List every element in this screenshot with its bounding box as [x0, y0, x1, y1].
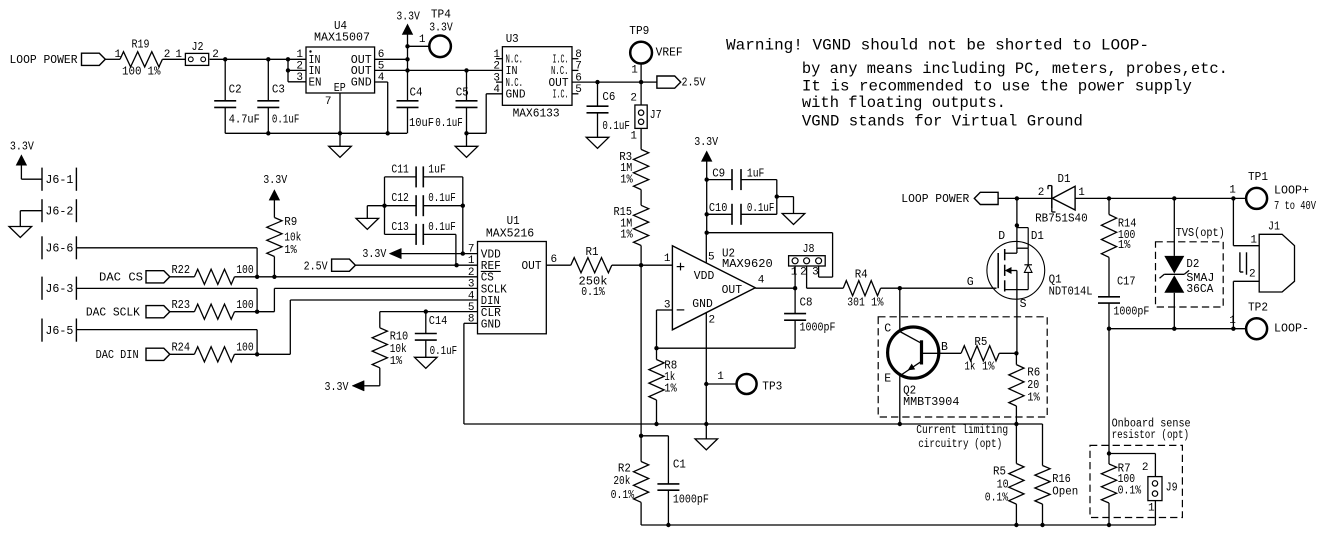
- svg-text:TP9: TP9: [629, 25, 649, 38]
- test point TP9: [629, 25, 682, 82]
- resistor R24: [172, 342, 254, 362]
- wire J6-6 to CS net: [76, 248, 257, 277]
- svg-text:0.1%: 0.1%: [1118, 484, 1142, 497]
- wire R19 to J2: [162, 49, 185, 61]
- wire Q2 emitter to rail: [898, 422, 902, 426]
- junction OUT/C8: [793, 286, 797, 290]
- svg-text:TVS(opt): TVS(opt): [1176, 227, 1225, 240]
- svg-text:D1: D1: [1031, 230, 1044, 243]
- wire cap bank left rail: [384, 177, 386, 235]
- svg-text:3: 3: [296, 72, 303, 84]
- junction CS/J6-6: [255, 275, 259, 279]
- svg-text:1uF: 1uF: [747, 168, 765, 181]
- ground symbol below C5: [455, 133, 478, 157]
- wire J2 to U4 input node: [210, 49, 288, 61]
- dashed box TVS: [1156, 227, 1225, 307]
- svg-text:J6-1: J6-1: [45, 174, 73, 187]
- resistor R19: [120, 39, 170, 79]
- svg-text:1uF: 1uF: [428, 163, 446, 176]
- svg-text:3: 3: [812, 267, 819, 279]
- wire J8 pin2 to R4: [807, 266, 844, 288]
- wire R10 to 3.3V arrow: [364, 368, 380, 386]
- test point TP4: [408, 9, 453, 58]
- text current limiting caption: [916, 424, 1008, 451]
- svg-text:2.5V: 2.5V: [682, 77, 706, 90]
- node DAC CS flag: [99, 271, 194, 285]
- svg-text:0.1%: 0.1%: [611, 489, 635, 502]
- svg-text:1: 1: [419, 34, 426, 46]
- svg-text:100: 100: [236, 342, 254, 355]
- wire R4 to gate node: [881, 276, 997, 289]
- svg-text:C13: C13: [391, 221, 409, 234]
- junction C17 bottom rail: [1107, 327, 1111, 331]
- svg-text:20: 20: [1027, 379, 1039, 392]
- wire sense column: [1108, 329, 1110, 454]
- junction U2 VDD rail: [705, 231, 709, 235]
- wire R23 to SCLK jog: [235, 288, 478, 314]
- power 3.3V arrow at R10: [325, 381, 365, 394]
- wire J1 pin1: [1233, 198, 1259, 245]
- test point TP1: [1229, 171, 1316, 213]
- svg-text:C9: C9: [712, 168, 725, 181]
- svg-text:2: 2: [709, 315, 716, 327]
- svg-text:J2: J2: [192, 41, 204, 54]
- capacitor C8: [784, 288, 835, 348]
- svg-text:1000pF: 1000pF: [800, 322, 836, 335]
- junction C5 top: [464, 68, 468, 72]
- svg-text:MAX15007: MAX15007: [314, 31, 370, 44]
- svg-text:B: B: [941, 341, 948, 354]
- resistor R3: [619, 149, 649, 189]
- ground symbol at J6-2: [9, 227, 32, 238]
- junction R7 bottom: [1107, 523, 1111, 527]
- dashed box onboard sense resistor: [1090, 418, 1191, 518]
- svg-text:TP3: TP3: [762, 380, 782, 393]
- svg-text:OUT: OUT: [522, 260, 542, 273]
- wire R7 to bottom rail: [1108, 503, 1110, 525]
- svg-text:2: 2: [1249, 269, 1256, 281]
- ground symbol at C9/C10: [782, 214, 805, 225]
- svg-text:MAX9620: MAX9620: [722, 258, 773, 271]
- junction C5 ground node: [464, 131, 468, 135]
- node LOOP POWER flag right: [901, 187, 1052, 206]
- svg-text:GND: GND: [506, 89, 526, 102]
- svg-text:MMBT3904: MMBT3904: [903, 396, 959, 409]
- jumper J2: [185, 41, 208, 65]
- resistor R5: [961, 336, 999, 373]
- junction C1 bottom: [666, 523, 670, 527]
- wire C13 to REF: [455, 234, 458, 265]
- svg-text:J6-6: J6-6: [45, 243, 73, 256]
- junction feedback node: [654, 346, 658, 350]
- node 2.5V output flag: [641, 76, 705, 90]
- svg-text:1: 1: [175, 49, 182, 61]
- wire cap bank right rail to VDD: [461, 177, 465, 254]
- junction C10 tap: [705, 212, 709, 216]
- junction J1 pin2 bottom: [1231, 327, 1235, 331]
- svg-text:D2: D2: [1186, 258, 1199, 271]
- resistor R8: [649, 348, 677, 400]
- wire J7 to R3: [630, 128, 641, 149]
- svg-text:VGND stands for Virtual Ground: VGND stands for Virtual Ground: [802, 113, 1083, 131]
- svg-text:1%: 1%: [871, 297, 884, 310]
- svg-text:R4: R4: [855, 269, 868, 282]
- capacitor C6: [587, 82, 630, 137]
- op-amp U2 MAX9620 triangle: [664, 246, 773, 330]
- junction C6 tap: [595, 80, 599, 84]
- svg-text:3.3V: 3.3V: [325, 381, 349, 394]
- junction CLR/C14: [424, 309, 428, 313]
- svg-text:20k: 20k: [613, 475, 630, 488]
- junction U4 IN pins: [286, 57, 290, 61]
- capacitor C2: [214, 59, 260, 133]
- svg-text:C17: C17: [1117, 276, 1136, 289]
- svg-text:DAC CS: DAC CS: [99, 272, 143, 285]
- svg-text:0.1uF: 0.1uF: [435, 117, 463, 130]
- svg-text:R1: R1: [586, 246, 599, 259]
- jumper J9: [1109, 454, 1178, 526]
- test point TP2: [1229, 301, 1309, 339]
- svg-text:R9: R9: [284, 216, 297, 229]
- junction C3 tap: [266, 57, 270, 61]
- wire to ground at C9/C10: [777, 197, 794, 214]
- resistor R23: [172, 299, 254, 319]
- svg-text:resistor (opt): resistor (opt): [1112, 429, 1190, 442]
- ground symbol at cap bank: [356, 218, 379, 229]
- svg-text:G: G: [967, 276, 974, 289]
- svg-text:1%: 1%: [982, 360, 995, 373]
- svg-text:2: 2: [1038, 187, 1045, 199]
- svg-text:GND: GND: [351, 76, 372, 89]
- resistor R22: [172, 264, 254, 284]
- wire flag to R19: [105, 49, 121, 61]
- svg-text:1: 1: [1250, 234, 1257, 246]
- TVS diode D2 SMAJ36CA: [1160, 198, 1215, 328]
- capacitor C3: [257, 59, 299, 133]
- svg-text:TP4: TP4: [431, 9, 451, 22]
- svg-text:1k: 1k: [964, 360, 975, 373]
- junction R16 bottom: [1040, 523, 1044, 527]
- svg-text:4: 4: [758, 275, 765, 287]
- node LOOP POWER (input flag): [10, 53, 106, 67]
- svg-text:J1: J1: [1268, 221, 1280, 234]
- wire U3 OUT pin6 to VREF node: [572, 81, 641, 83]
- svg-text:3.3V: 3.3V: [429, 22, 453, 35]
- resistor R15: [614, 205, 649, 245]
- svg-text:1: 1: [1078, 187, 1085, 199]
- wire Q1 drain: [1016, 198, 1018, 225]
- svg-text:1000pF: 1000pF: [673, 493, 709, 506]
- svg-text:C6: C6: [602, 91, 615, 104]
- connector J6-5: [42, 319, 76, 342]
- connector J6-1: [42, 168, 76, 191]
- wire op-amp VDD pin5: [705, 233, 707, 263]
- wire Q2 base to R5: [922, 352, 962, 354]
- wire R16 to bottom rail: [1042, 504, 1044, 525]
- junction cap bank ground tap: [382, 204, 386, 208]
- wire U1 OUT pin6: [546, 264, 571, 266]
- svg-text:1: 1: [791, 267, 798, 279]
- jumper J8: [789, 243, 826, 279]
- svg-text:C11: C11: [391, 163, 409, 176]
- wire op-amp OUT pin4 to J8 pin1: [755, 266, 795, 288]
- svg-text:1: 1: [1229, 185, 1236, 197]
- voltage reference U3 MAX6133 box: [493, 33, 582, 121]
- svg-text:R2: R2: [618, 463, 631, 476]
- svg-text:R5: R5: [974, 336, 987, 349]
- ground symbol below C6: [586, 137, 609, 148]
- op-amp regulator U4 MAX15007 box: [296, 20, 384, 108]
- wire R8 to VGND rail: [656, 400, 658, 424]
- svg-text:circuitry (opt): circuitry (opt): [918, 438, 1002, 451]
- wire summing node down to R2/C1: [640, 265, 642, 436]
- svg-text:0.1uF: 0.1uF: [602, 120, 630, 133]
- ground symbol at VGND rail: [695, 424, 718, 450]
- wire R22 to U1 CS: [235, 276, 478, 278]
- wire U4 GND pin4: [375, 82, 388, 133]
- svg-text:100: 100: [236, 264, 254, 277]
- wire loop- rail: [1109, 328, 1246, 330]
- junction R2/C1 node: [639, 434, 643, 438]
- dashed box current limiting: [878, 317, 1047, 417]
- wire IN tie to pin2 and pin3 (EN): [286, 59, 306, 82]
- power 3.3V arrow into U1 VDD: [362, 248, 477, 261]
- junction R5 bottom: [1014, 523, 1018, 527]
- svg-text:2.5V: 2.5V: [304, 260, 328, 273]
- wire J6-5 to DIN net: [76, 330, 257, 355]
- wire U3 GND pin4 to C5 ground: [467, 94, 503, 134]
- svg-text:D: D: [998, 230, 1005, 243]
- svg-text:EN: EN: [309, 76, 322, 89]
- svg-text:R24: R24: [172, 342, 191, 355]
- svg-text:C8: C8: [800, 297, 813, 310]
- svg-text:Current limiting: Current limiting: [916, 424, 1008, 437]
- svg-text:36CA: 36CA: [1186, 283, 1213, 296]
- power 3.3V at J6-1: [10, 140, 42, 179]
- wire feedback to C8: [657, 347, 796, 349]
- svg-text:U1: U1: [507, 215, 520, 228]
- junction cap ground tap: [775, 194, 779, 198]
- svg-text:1: 1: [664, 253, 671, 265]
- svg-text:It is recommended to use the p: It is recommended to use the power suppl…: [802, 78, 1192, 96]
- wire R5 sense to bottom rail: [1015, 504, 1017, 525]
- svg-text:C4: C4: [410, 87, 423, 100]
- svg-text:1%: 1%: [620, 228, 633, 241]
- wire VDD rail to J8 pin3: [707, 233, 833, 277]
- svg-text:LOOP+: LOOP+: [1274, 184, 1309, 197]
- power 3.3V at C9/C10: [694, 136, 718, 233]
- svg-text:R16: R16: [1052, 473, 1071, 486]
- svg-text:2: 2: [1142, 462, 1149, 474]
- svg-text:0.1uF: 0.1uF: [428, 192, 456, 205]
- svg-text:301: 301: [847, 297, 865, 310]
- junction gate/Q2 collector: [898, 286, 902, 290]
- svg-text:1%: 1%: [148, 66, 161, 79]
- svg-text:DAC DIN: DAC DIN: [96, 349, 139, 362]
- svg-text:3.3V: 3.3V: [362, 248, 386, 261]
- connector J6-6: [42, 236, 76, 259]
- svg-text:DAC SCLK: DAC SCLK: [86, 307, 140, 320]
- wire op-amp minus input: [657, 310, 673, 348]
- svg-text:3.3V: 3.3V: [694, 136, 718, 149]
- svg-text:Warning! VGND should not be sh: Warning! VGND should not be shorted to L…: [726, 37, 1149, 55]
- svg-text:RB751S40: RB751S40: [1035, 213, 1088, 226]
- capacitor C4: [397, 87, 435, 134]
- svg-text:3.3V: 3.3V: [10, 140, 34, 153]
- wire J6-2 to ground: [20, 211, 42, 227]
- svg-text:2: 2: [630, 93, 637, 105]
- junction VGND rail / ground: [704, 422, 708, 426]
- svg-text:VREF: VREF: [656, 47, 683, 60]
- svg-text:1: 1: [631, 65, 638, 77]
- junction Q1 drain tap: [1015, 196, 1019, 200]
- wire to ground at C12: [367, 206, 384, 219]
- svg-text:2: 2: [800, 267, 807, 279]
- svg-text:J7: J7: [650, 109, 662, 122]
- warning note text: [726, 37, 1228, 131]
- resistor R1: [571, 246, 612, 299]
- capacitor C17: [1098, 257, 1149, 328]
- node DAC SCLK flag: [86, 306, 194, 320]
- svg-text:R22: R22: [172, 264, 191, 277]
- svg-text:LOOP POWER: LOOP POWER: [10, 54, 78, 67]
- svg-text:1: 1: [296, 49, 303, 61]
- svg-text:5: 5: [708, 252, 715, 264]
- resistor R6: [1009, 353, 1041, 406]
- junction D2 tap: [1172, 196, 1176, 200]
- capacitor C14: [415, 312, 457, 359]
- wire U4 EP pin7: [339, 93, 341, 133]
- svg-text:with floating outputs.: with floating outputs.: [802, 94, 1006, 112]
- wire rail corner to R16: [1042, 424, 1044, 466]
- wire J1 pin2: [1233, 281, 1259, 328]
- svg-text:C3: C3: [272, 84, 285, 97]
- wire R10 CLR net: [380, 311, 478, 313]
- svg-text:Q1: Q1: [1049, 273, 1062, 286]
- svg-text:2: 2: [493, 61, 500, 73]
- svg-text:S: S: [1020, 298, 1027, 311]
- svg-text:0.1%: 0.1%: [581, 286, 605, 299]
- svg-text:U3: U3: [506, 33, 519, 46]
- svg-text:10: 10: [997, 478, 1009, 491]
- svg-text:1: 1: [468, 255, 475, 267]
- svg-text:C2: C2: [229, 84, 242, 97]
- transistor Q1 NDT014L mosfet: [987, 225, 1093, 299]
- connector J6-2: [42, 199, 76, 222]
- junction source node: [1014, 351, 1018, 355]
- wire R1 to op-amp +: [612, 253, 673, 265]
- ground rail under U4: [225, 131, 407, 135]
- svg-text:6: 6: [551, 254, 558, 266]
- capacitor C11: [385, 163, 463, 187]
- svg-text:1: 1: [717, 371, 724, 383]
- wire U1 GND pin8 to VGND rail: [464, 323, 1043, 424]
- junction TP3 tap: [704, 382, 708, 386]
- wire VREF to J7: [630, 82, 641, 105]
- wire R24 to DIN jog: [235, 300, 478, 356]
- test point TP3: [706, 371, 782, 394]
- svg-text:R19: R19: [132, 39, 150, 52]
- node 2.5V reference flag: [304, 259, 478, 273]
- svg-text:1%: 1%: [390, 355, 403, 368]
- svg-text:OUT: OUT: [722, 284, 743, 297]
- power 3.3V at R9: [263, 174, 287, 218]
- wire R2 to bottom rail: [641, 502, 1155, 525]
- wire R9 to CS line: [273, 257, 275, 277]
- capacitor C13: [385, 221, 456, 245]
- svg-text:LOOP POWER: LOOP POWER: [901, 193, 969, 206]
- junction J1 pin1 tap: [1231, 196, 1235, 200]
- resistor R9: [267, 216, 302, 257]
- svg-text:0.1uF: 0.1uF: [272, 113, 300, 126]
- svg-text:2: 2: [468, 267, 475, 279]
- svg-text:D1: D1: [1058, 173, 1071, 186]
- svg-text:C: C: [884, 322, 891, 335]
- svg-text:VDD: VDD: [694, 270, 715, 283]
- wire R15 to summing node: [640, 246, 642, 266]
- junction C2 tap: [223, 57, 227, 61]
- junction REF/C13: [454, 263, 458, 267]
- wire R5 to source node: [999, 352, 1016, 354]
- svg-text:NDT014L: NDT014L: [1049, 286, 1093, 299]
- transistor Q2 MMBT3904: [884, 288, 959, 424]
- svg-text:Open: Open: [1052, 486, 1078, 499]
- svg-text:1%: 1%: [664, 383, 677, 396]
- capacitor C5: [435, 70, 477, 133]
- power 3.3V at U4 output: [396, 10, 420, 46]
- svg-text:0.1uF: 0.1uF: [428, 221, 456, 234]
- resistor R5 sense: [985, 424, 1024, 504]
- svg-text:1%: 1%: [284, 244, 297, 257]
- svg-text:3.3V: 3.3V: [263, 174, 287, 187]
- svg-text:C12: C12: [391, 192, 409, 205]
- svg-text:4.7uF: 4.7uF: [229, 113, 260, 126]
- svg-text:3: 3: [468, 279, 475, 291]
- svg-text:E: E: [884, 373, 891, 386]
- svg-text:0.1%: 0.1%: [985, 491, 1009, 504]
- node DAC DIN flag: [96, 348, 195, 362]
- ground symbol below C14: [415, 357, 438, 368]
- svg-text:R10: R10: [390, 331, 409, 344]
- svg-text:R23: R23: [172, 299, 191, 312]
- resistor R2: [611, 436, 649, 503]
- wire U4 pin1 entry: [288, 58, 306, 60]
- svg-text:100: 100: [236, 299, 254, 312]
- wire J6-3 to SCLK net: [76, 288, 257, 311]
- svg-text:J8: J8: [803, 243, 815, 256]
- ground symbol at EP rail: [329, 133, 352, 157]
- connector J6-3: [42, 277, 76, 300]
- svg-text:7 to 40V: 7 to 40V: [1274, 200, 1316, 213]
- junction VDD/C11 C12 rail: [461, 251, 465, 255]
- svg-text:MAX5216: MAX5216: [486, 228, 534, 241]
- svg-text:10uF: 10uF: [409, 117, 434, 130]
- svg-text:7: 7: [468, 244, 475, 256]
- resistor R4: [843, 269, 883, 310]
- wire Q1 source: [1017, 298, 1027, 353]
- junction R6 rail: [1014, 422, 1018, 426]
- wire op-amp GND pin2 down: [705, 313, 707, 424]
- svg-text:0.1uF: 0.1uF: [747, 202, 775, 215]
- svg-text:1000pF: 1000pF: [1113, 306, 1149, 319]
- capacitor C9: [707, 168, 777, 190]
- svg-text:C10: C10: [709, 202, 728, 215]
- svg-text:1%: 1%: [620, 174, 633, 187]
- capacitor C10: [707, 202, 777, 225]
- svg-text:J6-5: J6-5: [45, 325, 73, 338]
- svg-text:MAX6133: MAX6133: [513, 107, 560, 120]
- jumper J7: [635, 105, 662, 128]
